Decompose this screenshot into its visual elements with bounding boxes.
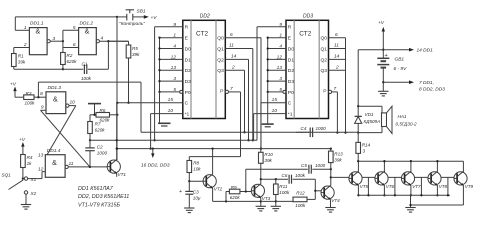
svg-text:14: 14: [334, 54, 340, 60]
IC counter DD3: [286, 14, 329, 119]
resistor R5: [108, 41, 140, 104]
svg-text:C3: C3: [193, 189, 199, 194]
svg-text:14 DD1: 14 DD1: [417, 48, 434, 54]
wire VT3 emitter: [260, 198, 262, 207]
svg-text:6: 6: [230, 32, 233, 38]
svg-text:14: 14: [231, 54, 237, 60]
svg-text:R14: R14: [362, 142, 371, 147]
svg-text:10: 10: [168, 108, 174, 114]
svg-text:VT1: VT1: [118, 172, 127, 177]
svg-text:7 DD1,: 7 DD1,: [419, 80, 434, 86]
wire collector drops: [358, 160, 463, 174]
wire pin 15 C DD3: [260, 97, 286, 150]
svg-text:R8: R8: [193, 160, 199, 165]
resistor R3: [24, 91, 35, 106]
resistor R14: [356, 133, 371, 162]
resistor R9: [226, 185, 251, 202]
svg-text:1000: 1000: [97, 151, 108, 156]
wire base line VT5-VT9: [331, 176, 457, 178]
wire bus4 P to R8: [189, 157, 240, 161]
svg-text:C1: C1: [82, 62, 88, 67]
svg-text:DD1.1: DD1.1: [30, 21, 44, 27]
resistor R6: [90, 108, 118, 123]
wire DD2 input strap to ground: [158, 37, 182, 123]
wire battery minus: [382, 68, 384, 92]
wire X2 to ground: [25, 194, 27, 204]
pin Q3 wire DD2: [225, 64, 245, 133]
ground at R11: [271, 206, 281, 211]
pin 9 R wire DD3: [257, 27, 286, 141]
ground battery: [378, 91, 388, 96]
svg-text:1k: 1k: [27, 161, 33, 166]
wire cross latch B: [41, 110, 90, 167]
svg-text:+V: +V: [10, 81, 17, 87]
svg-text:100k: 100k: [295, 173, 306, 178]
svg-text:&: &: [35, 29, 40, 36]
pin number labels DD3 left: [277, 22, 283, 93]
wire 14 DD1 arrow: [382, 48, 433, 54]
wire VT2 collector: [211, 147, 213, 174]
svg-text:R5: R5: [132, 46, 138, 51]
svg-text:CT2: CT2: [299, 31, 312, 38]
resistor R12: [293, 190, 315, 208]
svg-text:C5: C5: [301, 163, 307, 168]
transistor VT4: [321, 185, 340, 203]
terminal X1: [24, 177, 36, 182]
ground at VT4: [325, 208, 335, 213]
label Kontrol: [119, 21, 145, 27]
svg-text:11: 11: [334, 43, 339, 49]
svg-text:R12: R12: [296, 190, 305, 195]
wire pin 3 DD1.1 to DD1.2 inputs: [50, 30, 78, 47]
svg-text:3: 3: [53, 36, 56, 42]
svg-text:39k: 39k: [264, 158, 272, 163]
pin 1 label: [24, 25, 27, 31]
wire base-line verticals: [367, 177, 449, 196]
svg-text:8: 8: [40, 91, 43, 97]
svg-text:2: 2: [335, 64, 339, 70]
svg-text:+: +: [179, 189, 182, 195]
svg-text:Q3: Q3: [217, 68, 224, 74]
svg-text:VT2: VT2: [214, 187, 223, 192]
svg-text:DD1.3: DD1.3: [48, 85, 62, 91]
svg-text:VD1: VD1: [365, 112, 374, 117]
svg-text:SB1: SB1: [137, 9, 146, 15]
svg-text:&: &: [53, 97, 58, 104]
diode VD1: [355, 106, 381, 132]
node VT4 collector to VT5 base line: [330, 176, 332, 178]
svg-text:+V: +V: [19, 137, 26, 143]
svg-text:Q0: Q0: [217, 36, 224, 42]
wire rail1 ground stem: [409, 195, 411, 207]
battery GB1: [377, 53, 407, 72]
svg-text:2: 2: [23, 42, 27, 48]
pin 4 bubble DD1.2: [96, 40, 99, 43]
svg-text:C4: C4: [301, 126, 307, 131]
svg-text:R6: R6: [100, 108, 106, 113]
ground under DD3: [262, 124, 274, 127]
svg-text:10: 10: [272, 108, 278, 114]
svg-text:10: 10: [70, 99, 76, 105]
gate DD1.3: [46, 85, 66, 113]
svg-text:D3: D3: [185, 79, 192, 85]
resistor R7: [88, 115, 106, 142]
wire pin 10 *1 DD3: [254, 108, 286, 140]
svg-text:R13: R13: [334, 151, 343, 156]
svg-text:GB1: GB1: [395, 56, 405, 62]
gate DD1.4: [45, 148, 65, 177]
svg-text:Q2: Q2: [217, 57, 224, 63]
svg-text:+V: +V: [151, 15, 158, 21]
capacitor C5: [246, 163, 332, 174]
svg-text:1000: 1000: [316, 126, 327, 131]
resistor R4: [21, 155, 33, 180]
resistor R11: [274, 179, 290, 206]
pin Q2 wire DD3: [329, 54, 346, 60]
wire SB1 column: [116, 17, 118, 160]
wire top bus collectors: [357, 160, 463, 170]
pin Q2 wire DD2: [225, 54, 249, 142]
svg-text:R11: R11: [279, 184, 288, 189]
svg-text:C: C: [288, 101, 292, 107]
svg-text:100k: 100k: [81, 76, 92, 81]
svg-text:DD1.2: DD1.2: [80, 21, 94, 27]
label +V at R3: [10, 81, 24, 97]
svg-text:X2: X2: [30, 191, 37, 196]
svg-text:X1: X1: [30, 177, 37, 182]
svg-text:13: 13: [38, 152, 44, 158]
svg-text:P0: P0: [185, 90, 191, 96]
wire R8 to VT2 base: [189, 180, 206, 182]
svg-text:D2: D2: [185, 68, 192, 74]
svg-text:R7: R7: [95, 122, 101, 127]
svg-text:7: 7: [230, 86, 233, 92]
ground output stage: [405, 208, 415, 213]
capacitor C6: [282, 173, 316, 184]
svg-text:R9: R9: [231, 185, 237, 190]
svg-text:Q2: Q2: [321, 57, 328, 63]
ground at X2: [21, 205, 31, 210]
wire 7DD1 8DD2 arrow: [383, 80, 445, 93]
wire VT1 collector: [116, 103, 118, 160]
transistor VT2: [203, 174, 223, 192]
wire pin8 node to busA: [38, 82, 313, 132]
wire C6 line: [261, 178, 288, 180]
svg-text:+: +: [385, 53, 388, 59]
wire DD3 input strap to ground: [267, 37, 286, 124]
wire bus3 clock line: [116, 147, 331, 149]
svg-text:*1: *1: [288, 112, 293, 118]
capacitor C4: [296, 126, 358, 137]
pin 7 P DD3: [329, 86, 339, 134]
wire bus2 reset line: [90, 139, 257, 141]
wire +V branch to speaker column: [357, 50, 383, 108]
svg-text:D3: D3: [288, 79, 295, 85]
svg-text:VT8: VT8: [439, 184, 448, 189]
svg-text:1: 1: [24, 25, 27, 31]
svg-text:HA1: HA1: [398, 114, 407, 119]
wire pin 4 DD1.2: [100, 36, 129, 43]
svg-text:VT7: VT7: [412, 184, 421, 189]
pin 12 stub DD1.4: [28, 167, 46, 179]
svg-text:"Контроль": "Контроль": [119, 21, 145, 27]
pin 9 R wire DD2: [153, 27, 182, 142]
svg-text:VT6: VT6: [386, 184, 395, 189]
svg-text:P: P: [323, 89, 326, 95]
bubble P0 DD3: [283, 90, 286, 93]
svg-text:Q1: Q1: [321, 46, 328, 52]
capacitor C2: [85, 140, 107, 167]
svg-text:DD1.4: DD1.4: [47, 148, 61, 154]
svg-text:11: 11: [69, 161, 74, 167]
wire cross latch A: [45, 106, 76, 158]
svg-text:DD1 К561ЛА7: DD1 К561ЛА7: [78, 186, 114, 192]
capacitor C3: [179, 181, 201, 208]
ground under DD2: [158, 123, 171, 126]
transistor VT1: [107, 159, 126, 177]
svg-text:DD2: DD2: [200, 14, 210, 20]
svg-text:КД509А: КД509А: [364, 119, 381, 124]
switch SB1: [117, 9, 146, 21]
svg-text:620k: 620k: [230, 195, 241, 200]
svg-text:VT4: VT4: [331, 198, 340, 203]
svg-text:15: 15: [272, 97, 278, 103]
svg-text:P: P: [220, 89, 223, 95]
svg-text:&: &: [52, 160, 57, 167]
svg-text:39k: 39k: [334, 157, 342, 162]
label parts list line3: [78, 203, 121, 209]
svg-text:10μ: 10μ: [193, 195, 201, 200]
resistor R8: [187, 160, 201, 182]
wire rail1: [358, 194, 450, 196]
svg-text:15: 15: [168, 97, 174, 103]
wire VT2 emitter: [213, 188, 261, 202]
svg-text:3: 3: [363, 148, 366, 153]
gate DD1.2: [79, 21, 97, 55]
svg-text:DD2, DD3 К561ИЕ11: DD2, DD3 К561ИЕ11: [78, 194, 129, 200]
svg-text:620k: 620k: [67, 59, 78, 64]
svg-text:VT5: VT5: [360, 184, 369, 189]
wire VT4 emitter: [330, 200, 332, 208]
svg-text:&: &: [85, 29, 90, 36]
label +V battery: [378, 20, 385, 58]
wire SB1 to +V arrow: [133, 15, 149, 19]
node VD1 bottom: [357, 131, 359, 133]
pin 10 bubble DD1.3: [66, 99, 76, 107]
svg-text:VT1-VT9 КТ315Б: VT1-VT9 КТ315Б: [78, 203, 121, 209]
label parts list line2: [78, 194, 129, 200]
label +V at R4: [19, 137, 26, 155]
pin 13 label: [38, 152, 44, 158]
label parts list line1: [78, 186, 114, 192]
ground at VT3: [256, 206, 266, 211]
wire X1 node: [23, 178, 24, 180]
pin Q3 wire DD3: [329, 64, 346, 70]
svg-text:VT3: VT3: [262, 196, 271, 201]
svg-text:100k: 100k: [279, 190, 290, 195]
wire pin 2 DD1.1: [14, 42, 30, 48]
label 16 DD2 DD3: [141, 147, 170, 168]
speaker HA1: [358, 106, 417, 133]
resistor R10: [259, 149, 274, 164]
bubble P0 DD2: [180, 90, 183, 93]
svg-text:10k: 10k: [193, 166, 201, 171]
svg-text:C2: C2: [97, 145, 103, 150]
svg-text:9: 9: [41, 104, 44, 110]
svg-text:D1: D1: [185, 57, 192, 63]
svg-text:Q0: Q0: [321, 36, 328, 42]
svg-text:R2: R2: [67, 53, 73, 58]
gate DD1.1: [29, 21, 47, 55]
svg-text:VT9: VT9: [465, 184, 474, 189]
svg-text:2: 2: [231, 64, 235, 70]
resistor R13: [329, 147, 344, 185]
svg-text:6 - 9V: 6 - 9V: [394, 66, 408, 72]
wire pin 11 to VT1 base: [68, 166, 110, 168]
svg-text:0,5ГД30-2: 0,5ГД30-2: [396, 121, 418, 126]
node SB1 junction: [116, 16, 118, 18]
chassis bar near DD1.3: [88, 104, 101, 115]
svg-text:R10: R10: [264, 152, 273, 157]
pin Q1 wire DD3: [329, 43, 346, 49]
terminal X2: [24, 191, 36, 196]
svg-text:Q1: Q1: [217, 46, 224, 52]
svg-text:R1: R1: [18, 54, 24, 59]
pin number labels DD2 left: [171, 22, 177, 93]
svg-text:CT2: CT2: [196, 31, 209, 38]
svg-text:1000: 1000: [315, 163, 326, 168]
pin 3 bubble DD1.1: [47, 40, 50, 43]
svg-text:*1: *1: [185, 112, 190, 118]
wire VT1 emitter stub: [116, 174, 118, 177]
svg-text:C6: C6: [282, 173, 288, 178]
resistor R1: [12, 48, 26, 70]
pin Q0 wire DD2: [225, 32, 262, 150]
svg-text:100k: 100k: [295, 203, 306, 208]
wire oscillator bottom rail: [14, 68, 84, 70]
svg-text:D1: D1: [288, 57, 295, 63]
pin 6 label: [73, 42, 76, 48]
resistor R2: [61, 48, 78, 71]
wire VT3 collector: [260, 163, 262, 184]
wire R3 to pin 8 DD1.3: [34, 91, 46, 99]
svg-text:4: 4: [101, 36, 104, 42]
svg-text:D0: D0: [185, 46, 192, 52]
svg-text:6: 6: [335, 32, 338, 38]
svg-text:100k: 100k: [25, 101, 36, 106]
svg-text:12: 12: [38, 167, 44, 173]
pin 5 label: [73, 25, 76, 31]
svg-text:R: R: [185, 25, 189, 31]
wire pin 10 *1 DD2: [149, 108, 182, 150]
svg-text:39k: 39k: [132, 52, 140, 57]
svg-text:R: R: [288, 25, 292, 31]
svg-text:+V: +V: [378, 20, 385, 26]
svg-text:39k: 39k: [18, 60, 26, 65]
svg-text:DD3: DD3: [303, 14, 313, 20]
svg-text:SQ1: SQ1: [2, 173, 12, 178]
svg-text:8 DD2, DD3: 8 DD2, DD3: [419, 86, 445, 92]
svg-text:620k: 620k: [100, 118, 111, 123]
svg-text:C: C: [185, 101, 189, 107]
svg-text:D2: D2: [288, 68, 295, 74]
transistors VT5-VT9: [349, 171, 474, 189]
wire C6 to VT4 base: [314, 179, 324, 199]
wire emitter drops: [357, 185, 438, 196]
svg-text:7: 7: [334, 86, 337, 92]
pin 9 stub DD1.3: [41, 104, 47, 110]
wire emitter rail VT2-R12: [261, 200, 293, 202]
wire feedback top rail to pin 1 DD1.1: [15, 17, 117, 30]
pin 7 P DD2: [225, 86, 240, 157]
svg-text:P0: P0: [288, 90, 294, 96]
pin 11 bubble DD1.4: [65, 161, 74, 169]
pin Q0 wire DD3: [329, 32, 347, 134]
svg-text:5: 5: [73, 25, 76, 31]
svg-text:6: 6: [73, 42, 76, 48]
svg-text:11: 11: [229, 43, 234, 49]
svg-text:R3: R3: [26, 91, 32, 96]
wire VT9 emitter: [411, 185, 464, 205]
svg-text:Q3: Q3: [321, 68, 328, 74]
IC counter DD2: [183, 14, 226, 119]
label +V at SB1: [151, 15, 158, 21]
transistor VT3: [251, 184, 270, 201]
svg-text:R4: R4: [27, 155, 33, 160]
wire C5 drop to VT3 base: [245, 169, 247, 191]
svg-text:620k: 620k: [95, 128, 106, 133]
svg-text:16 DD2, DD3: 16 DD2, DD3: [141, 162, 170, 168]
wire pin 15 C DD2: [116, 97, 183, 104]
svg-text:D0: D0: [288, 46, 295, 52]
ground at C3: [184, 208, 194, 213]
pin Q1 wire DD2: [225, 43, 254, 142]
switch SQ1 blade: [2, 173, 24, 190]
capacitor C1: [81, 41, 108, 81]
